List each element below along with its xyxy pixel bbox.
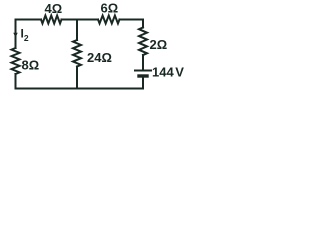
- wire right-middle segment: [142, 55, 144, 70]
- wire middle-top segment: [76, 20, 78, 41]
- svg-text:I2: I2: [21, 27, 29, 44]
- svg-text:24Ω: 24Ω: [87, 50, 112, 65]
- svg-text:144V: 144V: [152, 65, 184, 80]
- resistor R5 2Ω: [139, 28, 147, 56]
- wire top-middle segment: [62, 19, 99, 21]
- wire top-left segment: [16, 20, 42, 49]
- resistor R2 6Ω: [98, 16, 120, 24]
- resistor R4 24Ω: [73, 40, 81, 67]
- wire left-bottom segment: [15, 74, 17, 89]
- resistor R3 8Ω: [12, 48, 20, 74]
- svg-text:2Ω: 2Ω: [150, 37, 168, 52]
- resistor R1 4Ω: [41, 16, 62, 24]
- svg-text:8Ω: 8Ω: [22, 58, 40, 73]
- wire bottom segment: [16, 88, 144, 90]
- wire middle-bottom segment: [76, 67, 78, 89]
- svg-text:4Ω: 4Ω: [45, 1, 63, 16]
- battery V1 long plate: [135, 70, 151, 72]
- svg-text:6Ω: 6Ω: [101, 1, 119, 16]
- wire top-right segment: [120, 20, 144, 28]
- current arrow I2: [13, 33, 17, 38]
- battery V1 short plate: [139, 74, 147, 77]
- wire right-bottom segment: [142, 78, 144, 89]
